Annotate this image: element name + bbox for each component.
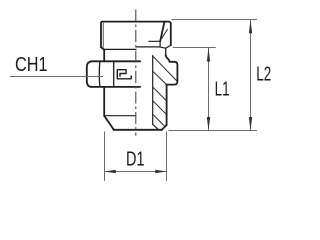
bore vertical below seat [159, 41, 161, 47]
bore wall lower [152, 56, 154, 125]
collar / hex flat in section [167, 62, 178, 85]
dimension lines [10, 20, 257, 182]
L1 down arrow [207, 117, 210, 131]
lower left edge [103, 87, 105, 116]
D1 extension left [104, 132, 106, 182]
chamfer circle line [104, 115, 136, 117]
chamfer left bottom of stud [101, 47, 104, 49]
D1 extension right [166, 132, 168, 182]
lower stud right edge [166, 85, 168, 125]
CH1 leader [10, 76, 103, 78]
thread end line [104, 48, 136, 50]
svg-text:L1: L1 [215, 78, 230, 100]
L1 up arrow [207, 48, 210, 62]
S-curve to collar top [166, 55, 170, 62]
bottom baseline [169, 130, 258, 132]
stud left edge [101, 22, 103, 48]
bottom edge [114, 129, 163, 131]
hex face line 2 [113, 62, 115, 87]
D1 dimension line [105, 171, 167, 173]
hatching [153, 29, 177, 127]
neck left edge [103, 50, 105, 62]
L1 dimension line [208, 48, 210, 131]
stud right edge [169, 22, 171, 46]
seat shoulder line [149, 40, 160, 42]
undercut groove [160, 45, 171, 48]
hex face line 1 [98, 62, 101, 86]
D1 left arrow [105, 170, 116, 173]
svg-text:D1: D1 [126, 148, 145, 170]
groove neck vertical [165, 48, 167, 55]
L2 up arrow [249, 20, 252, 34]
lower stud bottom right chamfer [162, 125, 167, 130]
bore bottom chamfer [153, 124, 159, 130]
thread end line right [136, 46, 159, 48]
L2 extension line [172, 19, 258, 21]
centerline [135, 10, 137, 136]
bottom chamfer left [104, 116, 113, 130]
hex top edge [91, 60, 140, 62]
thread root thin line [102, 23, 104, 47]
svg-text:CH1: CH1 [15, 54, 48, 76]
spiral mark [117, 70, 131, 79]
hex left silhouette [87, 61, 92, 87]
stud top edge [103, 21, 169, 23]
cone seat line [160, 22, 164, 42]
D1 right arrow [155, 170, 166, 173]
hex bottom edge [92, 86, 140, 88]
L2 dimension line [250, 20, 252, 131]
svg-text:L2: L2 [256, 64, 271, 86]
L1 extension line [173, 47, 216, 49]
arrowheads [105, 20, 253, 173]
L2 down arrow [249, 117, 252, 131]
